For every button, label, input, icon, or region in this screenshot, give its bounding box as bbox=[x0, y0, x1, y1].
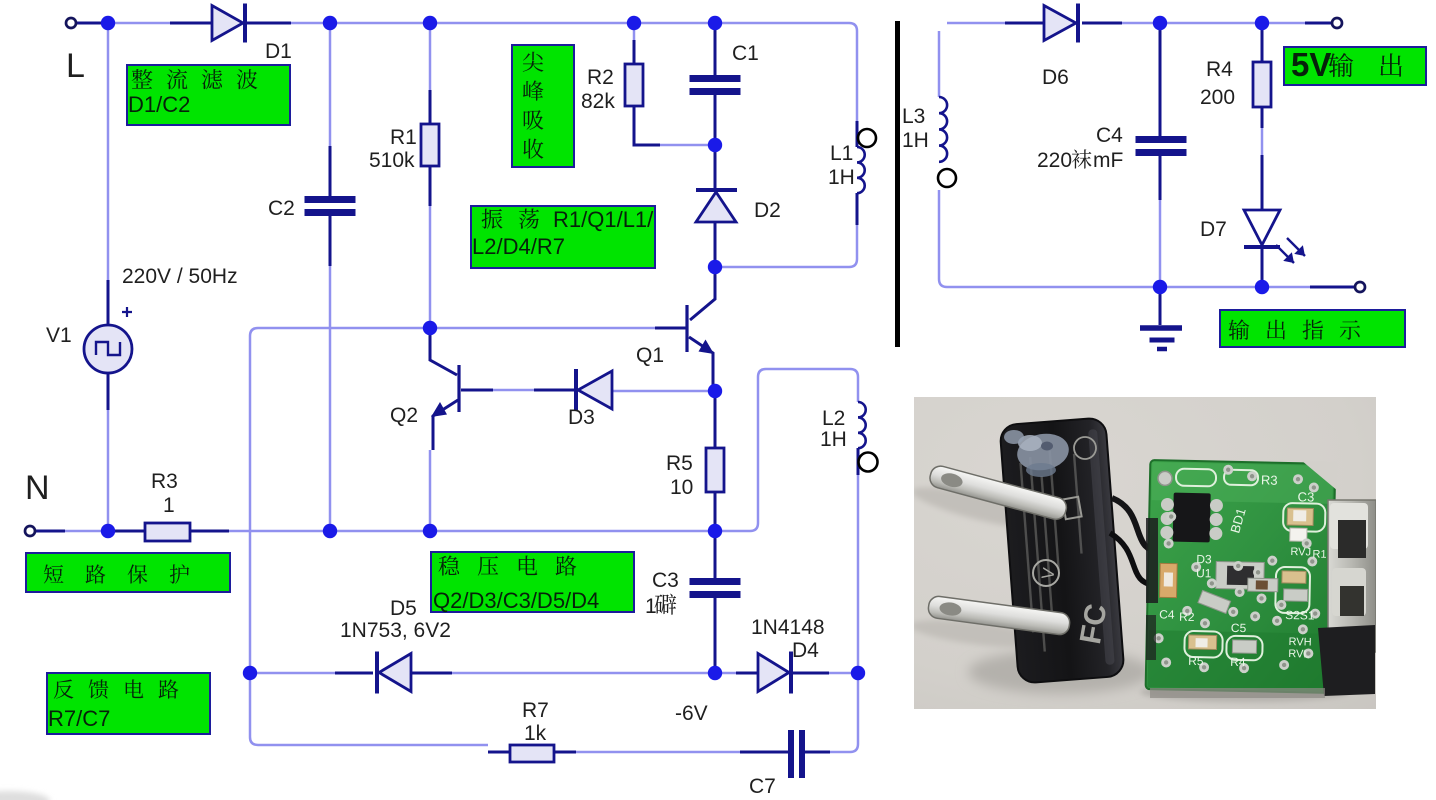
svg-text:C4: C4 bbox=[1096, 124, 1123, 147]
svg-text:D6: D6 bbox=[1042, 66, 1069, 89]
svg-text:10: 10 bbox=[670, 476, 693, 499]
svg-text:C4: C4 bbox=[1159, 607, 1175, 621]
svg-text:1k: 1k bbox=[524, 722, 547, 745]
svg-text:C3: C3 bbox=[1297, 489, 1314, 504]
svg-text:R4: R4 bbox=[1230, 655, 1246, 669]
svg-text:C1: C1 bbox=[732, 42, 759, 65]
svg-text:R4: R4 bbox=[1206, 58, 1233, 81]
svg-text:C3: C3 bbox=[652, 569, 679, 592]
svg-text:R1/Q1/L1/: R1/Q1/L1/ bbox=[553, 207, 654, 232]
svg-text:R2: R2 bbox=[587, 66, 614, 89]
svg-text:L1: L1 bbox=[830, 142, 853, 165]
svg-text:D5: D5 bbox=[390, 597, 417, 620]
svg-text:Q2/D3/C3/D5/D4: Q2/D3/C3/D5/D4 bbox=[433, 588, 599, 613]
svg-text:220: 220 bbox=[1037, 149, 1072, 172]
svg-text:1: 1 bbox=[163, 494, 175, 517]
svg-text:1H: 1H bbox=[902, 129, 929, 152]
svg-text:R3: R3 bbox=[151, 470, 178, 493]
svg-text:S2S1: S2S1 bbox=[1285, 608, 1315, 623]
svg-text:L2: L2 bbox=[822, 407, 845, 430]
svg-text:1N753, 6V2: 1N753, 6V2 bbox=[340, 619, 451, 642]
svg-text:D1: D1 bbox=[265, 40, 292, 63]
svg-text:1: 1 bbox=[645, 595, 657, 618]
svg-text:1H: 1H bbox=[820, 428, 847, 451]
svg-text:82k: 82k bbox=[581, 90, 615, 113]
svg-text:mF: mF bbox=[1093, 149, 1123, 172]
svg-text:1N4148: 1N4148 bbox=[751, 616, 825, 639]
svg-text:Q1: Q1 bbox=[636, 344, 664, 367]
svg-text:D3: D3 bbox=[568, 406, 595, 429]
svg-text:R7: R7 bbox=[522, 699, 549, 722]
svg-text:220V / 50Hz: 220V / 50Hz bbox=[122, 265, 238, 288]
svg-text:L: L bbox=[66, 47, 85, 85]
svg-text:C7: C7 bbox=[749, 775, 776, 798]
svg-text:5V: 5V bbox=[1291, 46, 1331, 83]
svg-text:U1: U1 bbox=[1196, 566, 1212, 580]
svg-text:Q2: Q2 bbox=[390, 404, 418, 427]
svg-text:C5: C5 bbox=[1231, 621, 1247, 635]
svg-text:R5: R5 bbox=[666, 452, 693, 475]
svg-text:L3: L3 bbox=[902, 105, 925, 128]
svg-text:R1: R1 bbox=[390, 126, 417, 149]
svg-text:D1/C2: D1/C2 bbox=[128, 92, 190, 117]
svg-text:-6V: -6V bbox=[675, 702, 708, 725]
svg-text:200: 200 bbox=[1200, 86, 1235, 109]
svg-text:L2/D4/R7: L2/D4/R7 bbox=[472, 234, 565, 259]
svg-text:RVH: RVH bbox=[1288, 636, 1311, 648]
svg-text:R5: R5 bbox=[1188, 654, 1204, 668]
svg-text:R1: R1 bbox=[1312, 549, 1326, 561]
svg-text:D2: D2 bbox=[754, 199, 781, 222]
svg-text:FC: FC bbox=[1074, 601, 1113, 646]
svg-text:510k: 510k bbox=[369, 149, 415, 172]
svg-text:D4: D4 bbox=[792, 639, 819, 662]
svg-text:RVJ: RVJ bbox=[1290, 546, 1311, 558]
svg-text:1H: 1H bbox=[828, 166, 855, 189]
svg-text:R7/C7: R7/C7 bbox=[48, 706, 110, 731]
svg-text:D3: D3 bbox=[1196, 552, 1212, 566]
svg-text:R3: R3 bbox=[1261, 472, 1278, 487]
svg-text:R2: R2 bbox=[1179, 610, 1195, 624]
svg-text:RVL: RVL bbox=[1288, 648, 1309, 660]
svg-text:C2: C2 bbox=[268, 197, 295, 220]
svg-text:V1: V1 bbox=[46, 324, 72, 347]
svg-text:N: N bbox=[25, 469, 50, 507]
svg-text:D7: D7 bbox=[1200, 218, 1227, 241]
